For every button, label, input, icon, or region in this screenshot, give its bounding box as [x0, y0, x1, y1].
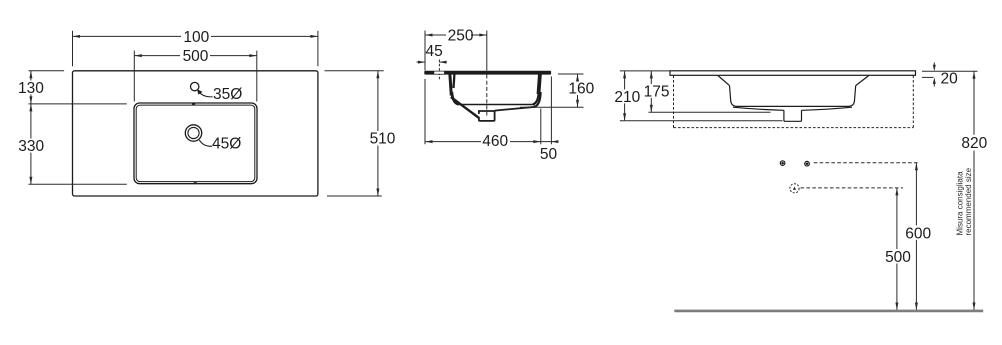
right chamfer	[856, 76, 869, 86]
svg-text:330: 330	[18, 138, 44, 155]
inner bottom	[457, 104, 535, 106]
basin outer rim	[134, 103, 257, 184]
svg-text:50: 50	[540, 146, 558, 163]
svg-text:20: 20	[941, 71, 959, 88]
svg-text:510: 510	[370, 131, 396, 148]
left wall inner line	[452, 74, 455, 88]
countertop outline	[73, 71, 318, 196]
svg-text:175: 175	[644, 83, 670, 100]
outer bottom right	[802, 107, 853, 110]
svg-text:Misura consigliata: Misura consigliata	[956, 171, 965, 236]
right wall	[539, 74, 540, 94]
outer slope right of drain	[495, 107, 536, 111]
svg-text:100: 100	[183, 29, 209, 46]
svg-text:820: 820	[961, 135, 987, 152]
dashed drain circle	[790, 184, 799, 193]
bowl centerline dashed	[486, 75, 488, 116]
outer slope left to drain	[451, 97, 479, 118]
dimension 500 (wall)	[896, 188, 898, 310]
right wall bottom curve	[533, 92, 539, 104]
tap hole dashed centerline	[438, 60, 440, 82]
bottom	[737, 105, 848, 107]
basin inner rim	[136, 105, 255, 182]
mounting dots	[780, 161, 809, 166]
bowl hidden outline	[718, 76, 869, 122]
dimension 160	[520, 74, 584, 107]
basin bottom center tick	[194, 182, 197, 184]
dimension 175	[649, 71, 771, 112]
counter slab (section, filled)	[424, 71, 551, 75]
dimension 820	[973, 71, 975, 135]
left wall bottom curve	[452, 92, 458, 104]
dimension 600	[915, 163, 917, 310]
svg-text:160: 160	[568, 81, 594, 98]
svg-text:35Ø: 35Ø	[213, 86, 242, 103]
svg-text:500: 500	[183, 48, 209, 65]
dashed leader from dots to 600	[814, 162, 919, 164]
dashed leader from drain circle to 500	[801, 187, 904, 189]
dimension 20 (slab thickness)	[922, 63, 978, 87]
svg-text:500: 500	[885, 249, 911, 266]
outer bottom left	[733, 107, 784, 110]
svg-text:45Ø: 45Ø	[212, 135, 241, 152]
recommended cabinet dashed box	[674, 76, 914, 128]
counter slab front	[670, 71, 916, 76]
svg-text:45: 45	[425, 43, 442, 60]
right wall	[848, 86, 856, 107]
drain outer circle	[185, 125, 201, 141]
drain box left notch	[478, 114, 481, 117]
svg-text:210: 210	[614, 89, 640, 106]
drain box front	[784, 110, 802, 121]
leader 45	[199, 140, 212, 146]
dimension 45	[417, 61, 448, 63]
bowl section outline	[450, 74, 541, 121]
dimension 460 and 50	[425, 77, 558, 145]
svg-text:130: 130	[18, 80, 44, 97]
svg-text:250: 250	[448, 27, 474, 44]
left wall outer line	[450, 74, 451, 95]
drain inner circle	[188, 127, 199, 138]
slope over notch	[474, 114, 479, 118]
dimension 210	[620, 71, 783, 121]
left wall	[730, 86, 738, 107]
tap hole slot in slab	[434, 72, 444, 74]
floor line	[674, 310, 983, 313]
dimension 250	[425, 31, 487, 71]
drain box	[479, 111, 495, 121]
tap hole circle	[191, 82, 199, 90]
svg-text:600: 600	[905, 225, 931, 242]
svg-text:460: 460	[482, 133, 508, 150]
svg-text:recommended size: recommended size	[964, 167, 973, 235]
right wall outer lower curve	[534, 92, 541, 107]
leader 35	[199, 92, 213, 97]
left chamfer	[718, 76, 730, 86]
basin top center tick	[192, 103, 195, 105]
